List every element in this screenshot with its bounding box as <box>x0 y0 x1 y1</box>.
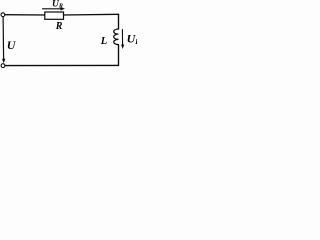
svg-text:UL: UL <box>127 31 137 46</box>
inductor L <box>114 29 119 45</box>
svg-text:L: L <box>100 36 107 47</box>
wire right lower <box>118 45 120 66</box>
svg-text:U: U <box>7 38 17 52</box>
voltage arrow U_R <box>43 8 62 10</box>
wire bottom <box>5 64 119 66</box>
voltage arrow U_L <box>121 30 123 46</box>
svg-text:UR: UR <box>52 0 63 9</box>
terminal (top-left) <box>1 13 5 17</box>
wire top-right segment <box>63 13 118 16</box>
terminal (bottom-left) <box>1 64 5 68</box>
wire right upper <box>118 14 120 29</box>
resistor R <box>45 12 64 19</box>
svg-text:R: R <box>55 21 63 32</box>
voltage arrow U <box>2 17 5 60</box>
wire top-left segment <box>5 14 45 16</box>
